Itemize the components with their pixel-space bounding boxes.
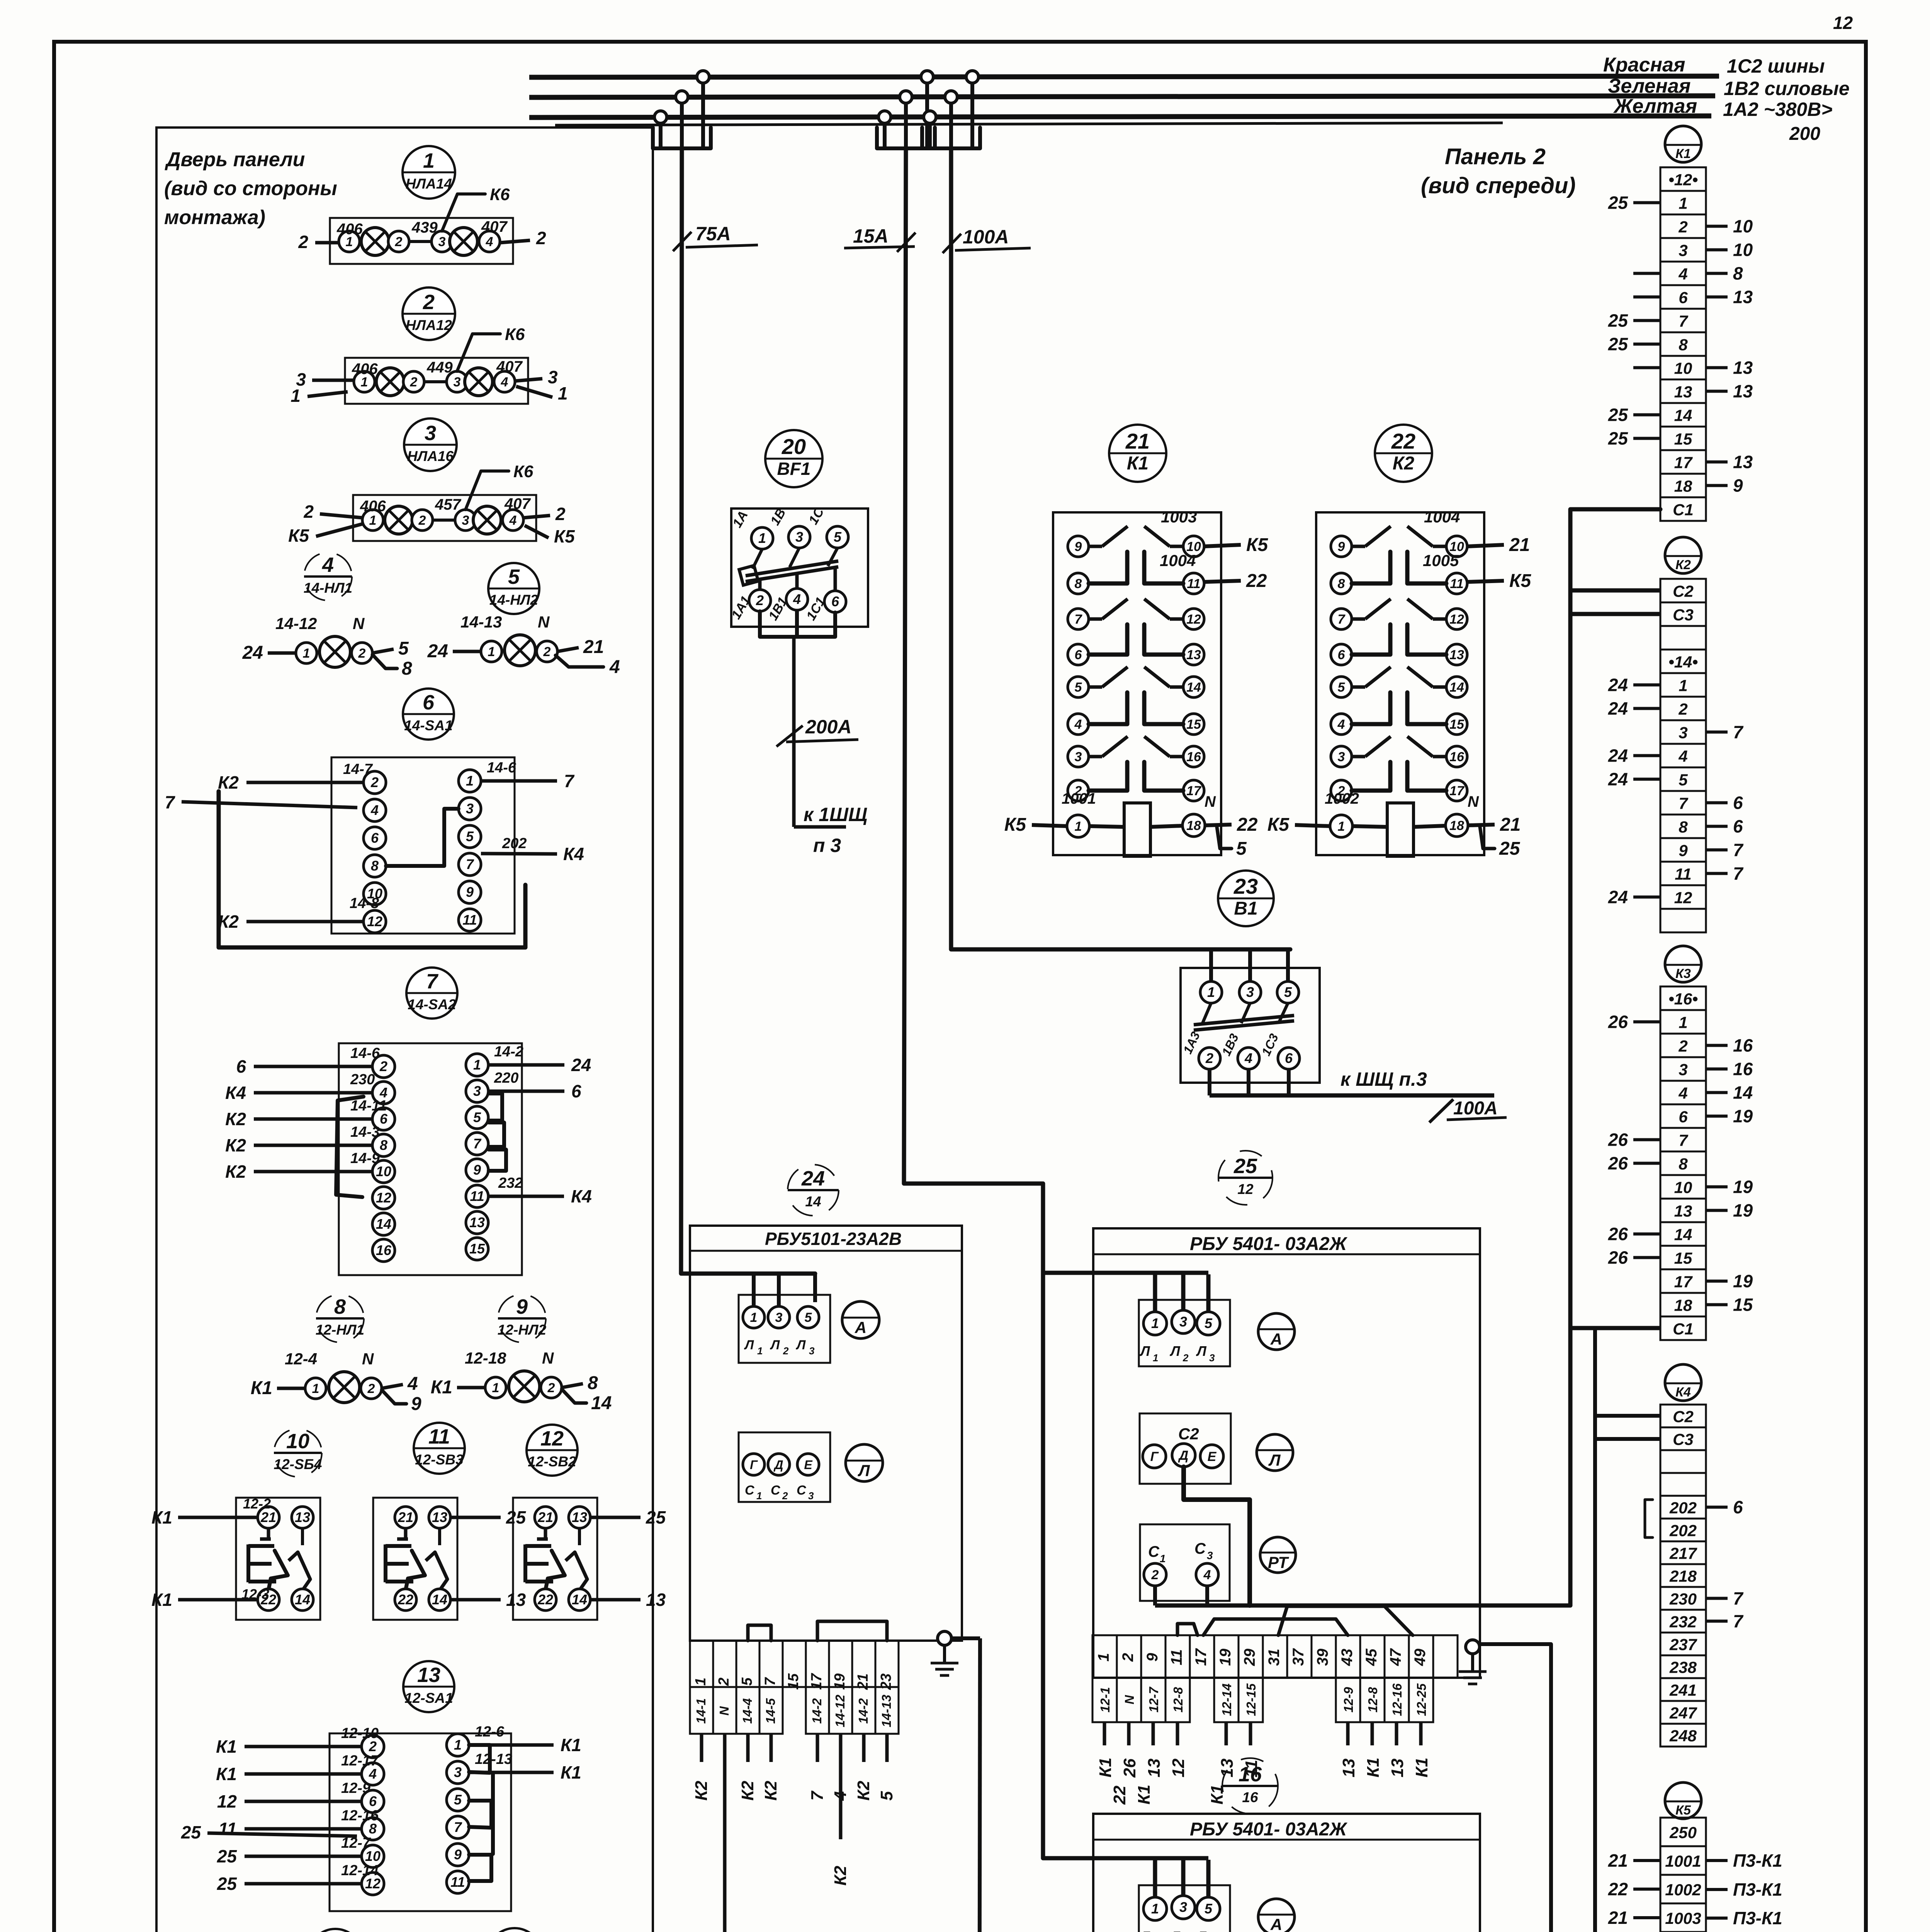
RBU5101 terminal strip — [690, 1641, 713, 1687]
svg-text:9: 9 — [454, 1847, 462, 1862]
К1 row 3 right lead 10 — [1706, 248, 1728, 252]
svg-text:22: 22 — [1246, 571, 1267, 591]
svg-text:12-SВ2: 12-SВ2 — [528, 1454, 576, 1469]
svg-text:3: 3 — [438, 235, 446, 249]
lead 14SA2 pin 3 to 6 — [488, 1090, 564, 1093]
terminal strip balloon К1 — [1665, 126, 1701, 162]
svg-text:К6: К6 — [505, 325, 525, 344]
svg-text:1: 1 — [1679, 1014, 1687, 1032]
svg-text:14-НЛ2: 14-НЛ2 — [489, 592, 539, 608]
svg-text:1С2 шины: 1С2 шины — [1727, 55, 1825, 77]
svg-text:К4: К4 — [563, 844, 584, 864]
svg-text:13: 13 — [1733, 452, 1753, 472]
RBU5401-lower box — [1093, 1814, 1480, 1932]
svg-text:25: 25 — [1233, 1155, 1257, 1178]
svg-text:21: 21 — [1125, 429, 1150, 453]
svg-text:12: 12 — [1169, 1759, 1188, 1777]
RBU5101 strip jumpers — [748, 1625, 771, 1641]
svg-text:6: 6 — [1733, 1497, 1743, 1517]
wire to K6 HL2 — [457, 334, 500, 371]
svg-text:12-14: 12-14 — [341, 1862, 379, 1879]
svg-text:24: 24 — [801, 1167, 825, 1190]
svg-text:248: 248 — [1669, 1727, 1697, 1745]
К2 row 2 left lead 24 — [1633, 707, 1660, 710]
RBU5401-lower pin 3 — [1172, 1896, 1195, 1919]
svg-text:100А: 100А — [963, 226, 1009, 248]
lead К1 to 12SA1 pin 2 — [245, 1745, 362, 1748]
svg-text:9: 9 — [1075, 539, 1082, 554]
svg-text:1В2 силовые: 1В2 силовые — [1724, 78, 1850, 99]
svg-text:21: 21 — [260, 1509, 276, 1525]
svg-text:16: 16 — [1242, 1789, 1258, 1805]
B1 stubs from feed — [1209, 949, 1213, 981]
svg-text:4: 4 — [407, 1374, 418, 1394]
RBU5401-lower ammeter — [1258, 1899, 1295, 1932]
RBU5101 GDE block — [739, 1432, 830, 1502]
wire left chain 14-SA2 — [336, 1097, 364, 1197]
RBU5101 ammeter A — [842, 1301, 879, 1338]
RBU5401-upper pin 4 — [1196, 1563, 1218, 1586]
svg-text:14-1: 14-1 — [694, 1698, 708, 1724]
svg-text:К2: К2 — [831, 1866, 850, 1886]
svg-text:13: 13 — [1674, 1202, 1692, 1220]
К3 row 1 left lead 26 — [1633, 1020, 1660, 1024]
svg-text:7: 7 — [1733, 840, 1744, 860]
svg-text:12-14: 12-14 — [1220, 1684, 1234, 1716]
svg-text:Желтая: Желтая — [1613, 95, 1697, 117]
К5 row 1002 left lead 22 — [1633, 1888, 1660, 1891]
svg-text:К2: К2 — [692, 1781, 711, 1801]
svg-text:1: 1 — [1679, 677, 1687, 695]
svg-text:7: 7 — [1733, 864, 1744, 884]
svg-text:13: 13 — [417, 1663, 440, 1687]
lead К4 to 14SA2 pin 4 — [254, 1091, 372, 1095]
К2 row 11 right lead 7 — [1706, 872, 1728, 875]
svg-text:К4: К4 — [1675, 1385, 1691, 1400]
svg-text:21: 21 — [1608, 1908, 1628, 1928]
wire K4 feed vertical — [1551, 1328, 1595, 1932]
svg-text:25: 25 — [1608, 334, 1629, 354]
RBU5101 pin 5 — [797, 1306, 819, 1328]
svg-text:6: 6 — [423, 691, 435, 714]
SB2-12 pin 21 — [535, 1507, 556, 1528]
svg-text:13: 13 — [1733, 381, 1753, 401]
RBU5101 pin 1 — [743, 1306, 765, 1328]
svg-text:18: 18 — [1449, 818, 1464, 833]
svg-text:С: С — [771, 1483, 780, 1498]
HL1 pin 1 — [339, 231, 360, 252]
svg-text:7: 7 — [165, 792, 175, 812]
selector switch 14SA1 box — [331, 757, 515, 934]
lead К2 to 14SA2 pin 10 — [254, 1170, 372, 1173]
svg-text:14: 14 — [1733, 1083, 1753, 1103]
svg-text:К5: К5 — [288, 526, 309, 546]
К5 row 1001 left lead 21 — [1633, 1859, 1660, 1862]
svg-text:8: 8 — [1679, 818, 1688, 836]
svg-text:К1: К1 — [1127, 453, 1148, 474]
QF1 blades — [753, 549, 762, 569]
svg-text:П3-К1: П3-К1 — [1733, 1850, 1782, 1871]
svg-text:19: 19 — [1733, 1177, 1753, 1197]
lamp assembly HL3 box — [353, 495, 536, 541]
svg-text:К2: К2 — [225, 1162, 246, 1182]
svg-text:3: 3 — [808, 1490, 814, 1502]
svg-text:С: С — [745, 1483, 754, 1498]
svg-text:238: 238 — [1669, 1658, 1697, 1677]
svg-text:7: 7 — [1733, 722, 1744, 742]
svg-text:6: 6 — [1679, 289, 1688, 307]
svg-text:13: 13 — [1339, 1759, 1358, 1777]
relay К1 coil — [1067, 815, 1089, 837]
left panel box — [156, 128, 653, 1932]
svg-text:5: 5 — [1205, 1315, 1213, 1331]
svg-text:1: 1 — [693, 1677, 709, 1685]
svg-text:202: 202 — [1669, 1522, 1697, 1540]
lead 6 to 14SA2 pin 2 — [254, 1065, 372, 1068]
svg-text:24: 24 — [427, 641, 448, 662]
RBU5401-upper GDE block — [1140, 1413, 1231, 1484]
button balloon 10 12-SB4 — [274, 1429, 322, 1477]
svg-text:1005: 1005 — [1423, 551, 1459, 570]
svg-text:НЛА16: НЛА16 — [407, 448, 454, 464]
svg-text:9: 9 — [1144, 1653, 1161, 1662]
К1 row 1 left lead 25 — [1633, 201, 1660, 204]
svg-text:22: 22 — [1391, 429, 1415, 453]
svg-text:17: 17 — [1674, 454, 1693, 472]
svg-text:Л: Л — [1268, 1451, 1281, 1469]
HL3 pin 2 — [412, 510, 433, 531]
svg-text:К1: К1 — [251, 1378, 272, 1398]
RBU5101 strip wires down — [700, 1734, 703, 1762]
svg-text:К4: К4 — [225, 1083, 246, 1103]
tap node L2 x1765 — [676, 91, 688, 103]
lead left 14HL2 — [453, 650, 481, 653]
lead 14-SA1 pin7 to K4 — [481, 854, 557, 854]
svg-text:6: 6 — [1733, 793, 1743, 813]
B1 pin 1 — [1200, 981, 1222, 1003]
svg-text:6: 6 — [236, 1056, 246, 1077]
bus L2 green — [529, 96, 1715, 97]
relay К2 coil — [1330, 815, 1352, 837]
lead right 14HL2 — [557, 648, 579, 651]
fuse label 100A — [943, 234, 961, 253]
svg-text:13: 13 — [432, 1509, 447, 1525]
indicator balloon 2 HLA12 — [403, 287, 455, 340]
svg-text:14-9: 14-9 — [350, 1150, 380, 1167]
svg-text:Л: Л — [770, 1338, 780, 1352]
svg-text:21: 21 — [537, 1509, 553, 1525]
svg-text:К3: К3 — [1675, 966, 1691, 981]
RBU5401-upper pin E — [1200, 1445, 1223, 1468]
svg-text:3: 3 — [1075, 750, 1082, 764]
svg-text:25: 25 — [646, 1507, 666, 1527]
svg-text:12: 12 — [1186, 612, 1201, 627]
К4 row 230 right lead 7 — [1706, 1597, 1728, 1600]
svg-text:11: 11 — [218, 1819, 237, 1839]
K4 bracket 202 — [1645, 1500, 1653, 1537]
svg-text:НЛА12: НЛА12 — [406, 317, 452, 333]
tap node L1 x1765 — [697, 71, 709, 83]
svg-text:26: 26 — [1120, 1759, 1139, 1778]
12SA1 left pins — [362, 1735, 384, 1758]
lead right 14HL1 — [372, 649, 394, 653]
12SA1 right pins — [447, 1734, 469, 1756]
svg-text:18: 18 — [1674, 1296, 1692, 1315]
svg-text:25: 25 — [1608, 311, 1629, 331]
indicator balloon 14 16-HL1 — [308, 1929, 362, 1932]
lead 2 left HL3 — [320, 514, 362, 518]
svg-text:монтажа): монтажа) — [164, 206, 265, 229]
relay К2 contact group pins 9-8 — [1331, 536, 1352, 557]
indicator balloon 1 HLA14 — [403, 146, 455, 199]
lead 3 left HL2 — [312, 379, 354, 382]
svg-text:13: 13 — [1674, 383, 1692, 401]
svg-text:4: 4 — [609, 657, 620, 677]
svg-text:2: 2 — [1205, 1050, 1213, 1066]
svg-text:5: 5 — [473, 1109, 481, 1125]
svg-text:К1: К1 — [216, 1736, 237, 1757]
svg-text:12-16: 12-16 — [341, 1808, 379, 1824]
svg-text:4: 4 — [1244, 1050, 1252, 1066]
svg-text:2: 2 — [395, 235, 403, 249]
К1 row 7 left lead 25 — [1633, 319, 1660, 322]
К1 row 10 left lead — [1633, 366, 1660, 369]
К3 row 2 right lead 16 — [1706, 1044, 1728, 1047]
svg-text:К5: К5 — [1509, 571, 1532, 591]
svg-text:25: 25 — [506, 1507, 527, 1527]
К4 row 202 right lead 6 — [1706, 1506, 1728, 1509]
lead 25 to 12SA1 pin 12 — [245, 1882, 362, 1886]
svg-text:14-6: 14-6 — [487, 760, 516, 776]
svg-text:16: 16 — [1186, 750, 1201, 764]
svg-text:25: 25 — [181, 1822, 202, 1842]
svg-text:9: 9 — [1338, 539, 1345, 554]
lamp 12HL1 pin 1 — [305, 1378, 326, 1399]
К3 row 14 left lead 26 — [1633, 1233, 1660, 1236]
svg-text:4: 4 — [1203, 1568, 1211, 1582]
svg-text:2: 2 — [298, 232, 308, 252]
RBU5101 pin D — [768, 1454, 790, 1475]
svg-text:1: 1 — [558, 383, 568, 403]
wire K2 long from cell 19 — [839, 1762, 843, 1839]
tap node L3 x2345 — [878, 111, 891, 123]
button SB2-12 box — [513, 1498, 597, 1620]
svg-text:26: 26 — [1608, 1130, 1628, 1150]
svg-text:24: 24 — [1608, 746, 1628, 766]
svg-text:6: 6 — [1733, 816, 1743, 837]
lead К2 to 14SA2 pin 6 — [254, 1117, 372, 1121]
QF1 pin 3 — [788, 526, 810, 548]
svg-text:22: 22 — [1608, 1879, 1628, 1899]
svg-text:К5: К5 — [1675, 1803, 1691, 1818]
svg-text:К5: К5 — [1246, 535, 1269, 555]
svg-text:12: 12 — [1237, 1181, 1254, 1197]
svg-text:Дверь панели: Дверь панели — [165, 148, 305, 171]
14SA2 left pins — [372, 1055, 395, 1078]
svg-text:1003: 1003 — [1665, 1909, 1701, 1927]
lead 11 to 12SA1 pin 8 — [245, 1827, 362, 1831]
svg-text:24: 24 — [1608, 675, 1628, 695]
lead left 12HL2 — [457, 1386, 485, 1389]
svg-text:26: 26 — [1608, 1012, 1628, 1032]
svg-text:К2: К2 — [225, 1135, 246, 1155]
svg-text:•12•: •12• — [1668, 171, 1698, 189]
wire RBU5101 ground to zero bus — [979, 1638, 980, 1932]
svg-text:14: 14 — [1674, 406, 1692, 425]
SB2-12 pin 13 — [569, 1507, 590, 1528]
RBU5401-upper strip wires down — [1103, 1722, 1106, 1745]
svg-text:11: 11 — [1168, 1649, 1185, 1665]
RBU5401-upper pin 3 — [1172, 1310, 1195, 1333]
svg-text:2: 2 — [303, 502, 314, 522]
lamp 14HL2 pin 1 — [481, 641, 502, 662]
svg-text:Красная: Красная — [1603, 54, 1685, 76]
svg-text:11: 11 — [450, 1874, 465, 1890]
svg-text:14: 14 — [572, 1592, 587, 1607]
RBU5401-lower title strip — [1093, 1839, 1480, 1841]
HL1 pin 4 — [479, 231, 500, 252]
svg-text:7: 7 — [808, 1790, 827, 1801]
svg-text:21: 21 — [398, 1509, 413, 1525]
svg-text:Г: Г — [750, 1458, 758, 1472]
svg-text:18: 18 — [1674, 477, 1692, 495]
svg-text:2: 2 — [1151, 1568, 1159, 1582]
svg-text:407: 407 — [496, 358, 523, 375]
svg-text:15: 15 — [1186, 717, 1201, 732]
B1 pin 4 — [1238, 1048, 1259, 1069]
svg-text:К6: К6 — [490, 185, 510, 204]
wire to K4.C3 — [1595, 1437, 1660, 1441]
svg-text:1002: 1002 — [1325, 790, 1359, 807]
lead left 14HL1 — [268, 651, 296, 655]
svg-text:14-3: 14-3 — [350, 1124, 380, 1140]
svg-text:6: 6 — [1338, 648, 1346, 662]
svg-text:Панель 2: Панель 2 — [1445, 144, 1546, 169]
svg-text:8: 8 — [588, 1373, 598, 1393]
svg-text:4: 4 — [1678, 265, 1687, 283]
svg-text:17: 17 — [1449, 784, 1465, 798]
RBU5401-upper title strip — [1093, 1253, 1480, 1255]
svg-text:15: 15 — [785, 1673, 802, 1690]
svg-text:К2: К2 — [854, 1781, 873, 1801]
svg-text:232: 232 — [1669, 1613, 1697, 1631]
svg-text:Е: Е — [1208, 1449, 1217, 1464]
lamp 14HL1 bulb — [319, 636, 350, 667]
bus N segment — [555, 123, 1503, 125]
К2 row 1 left lead 24 — [1633, 684, 1660, 687]
lamp 12HL2 pin 1 — [485, 1377, 506, 1398]
svg-text:С1: С1 — [1673, 1320, 1694, 1338]
RBU5101 L block — [739, 1295, 830, 1363]
lead left 12HL1 — [277, 1387, 305, 1390]
svg-text:14: 14 — [1186, 680, 1201, 695]
svg-text:2: 2 — [423, 291, 435, 314]
indicator balloon 5 14-HL2 — [488, 563, 539, 614]
svg-text:12-НЛ1: 12-НЛ1 — [316, 1322, 364, 1338]
lamp 14HL2 bulb — [505, 635, 535, 666]
svg-text:1: 1 — [1151, 1315, 1159, 1331]
QF1 pin 4 — [786, 588, 808, 610]
breaker balloon 23 B1 — [1218, 871, 1274, 926]
svg-text:1: 1 — [423, 149, 435, 172]
svg-text:К6: К6 — [513, 462, 533, 481]
relay К1 contact group pins 7-6 — [1068, 609, 1089, 629]
relay К2 pin18 leads — [1468, 825, 1495, 825]
svg-text:2: 2 — [756, 592, 764, 608]
svg-text:К4: К4 — [571, 1186, 592, 1206]
SB3-12 actuator symbol — [404, 1528, 408, 1539]
svg-text:7: 7 — [1733, 1588, 1744, 1609]
svg-text:11: 11 — [1675, 865, 1692, 883]
HL3 lamp B — [473, 506, 501, 534]
svg-text:9: 9 — [473, 1162, 481, 1178]
wire pins 2-3 HL3 — [433, 519, 455, 522]
svg-text:5: 5 — [1075, 680, 1082, 695]
14SA1 internal jumpers — [386, 809, 459, 866]
RBU5401-lower pin 5 — [1197, 1897, 1220, 1920]
14SA2 internal jumpers — [489, 1094, 502, 1121]
lead К1 to SB4-12 22 — [178, 1598, 258, 1602]
К1 row 4 right lead 8 — [1706, 272, 1728, 275]
svg-text:1: 1 — [1207, 984, 1215, 1000]
svg-text:1: 1 — [312, 1381, 319, 1396]
svg-text:12-9: 12-9 — [1341, 1687, 1356, 1713]
bus L1 red — [529, 76, 1719, 77]
svg-text:26: 26 — [1608, 1153, 1628, 1173]
SB2-12 pin 14 — [569, 1589, 590, 1611]
svg-text:9: 9 — [516, 1295, 528, 1318]
svg-text:14-7: 14-7 — [343, 761, 373, 777]
svg-text:К2: К2 — [761, 1781, 780, 1801]
svg-text:К1: К1 — [1135, 1784, 1154, 1804]
relay К1 contact group pins 3-2 — [1068, 746, 1089, 767]
svg-text:22: 22 — [398, 1592, 413, 1607]
svg-text:7: 7 — [564, 771, 575, 791]
svg-text:8: 8 — [1679, 336, 1688, 354]
svg-text:16: 16 — [376, 1242, 392, 1258]
svg-text:Л: Л — [744, 1338, 754, 1352]
lead К5 right HL3 — [525, 526, 549, 538]
svg-text:Зеленая: Зеленая — [1608, 75, 1691, 97]
svg-text:6: 6 — [371, 830, 379, 846]
svg-text:24: 24 — [571, 1055, 591, 1075]
svg-text:К2: К2 — [225, 1109, 246, 1129]
svg-text:1: 1 — [1151, 1901, 1159, 1917]
svg-text:20: 20 — [782, 434, 806, 459]
svg-text:К2: К2 — [1393, 453, 1415, 474]
lamp 14HL1 pin 1 — [296, 643, 317, 663]
svg-text:1: 1 — [303, 646, 310, 661]
wire to K2.C2 — [1570, 588, 1660, 593]
svg-text:С2: С2 — [1673, 582, 1694, 600]
wire to K3.C1 — [1570, 1326, 1660, 1330]
svg-text:3: 3 — [454, 1764, 462, 1780]
svg-text:12-8: 12-8 — [1366, 1687, 1380, 1713]
svg-text:12: 12 — [376, 1190, 391, 1206]
svg-text:4: 4 — [322, 553, 334, 577]
svg-text:В1: В1 — [1234, 898, 1257, 919]
svg-text:2: 2 — [418, 513, 426, 528]
К3 row 13 right lead 19 — [1706, 1209, 1728, 1212]
svg-text:2: 2 — [379, 1058, 387, 1074]
svg-text:П3-К1: П3-К1 — [1733, 1908, 1782, 1928]
svg-text:С: С — [797, 1483, 806, 1498]
svg-text:2: 2 — [536, 228, 546, 248]
RBU5101 ground — [938, 1631, 951, 1645]
svg-text:202: 202 — [502, 835, 527, 852]
svg-text:К1: К1 — [1412, 1757, 1431, 1777]
svg-text:5: 5 — [805, 1310, 812, 1325]
